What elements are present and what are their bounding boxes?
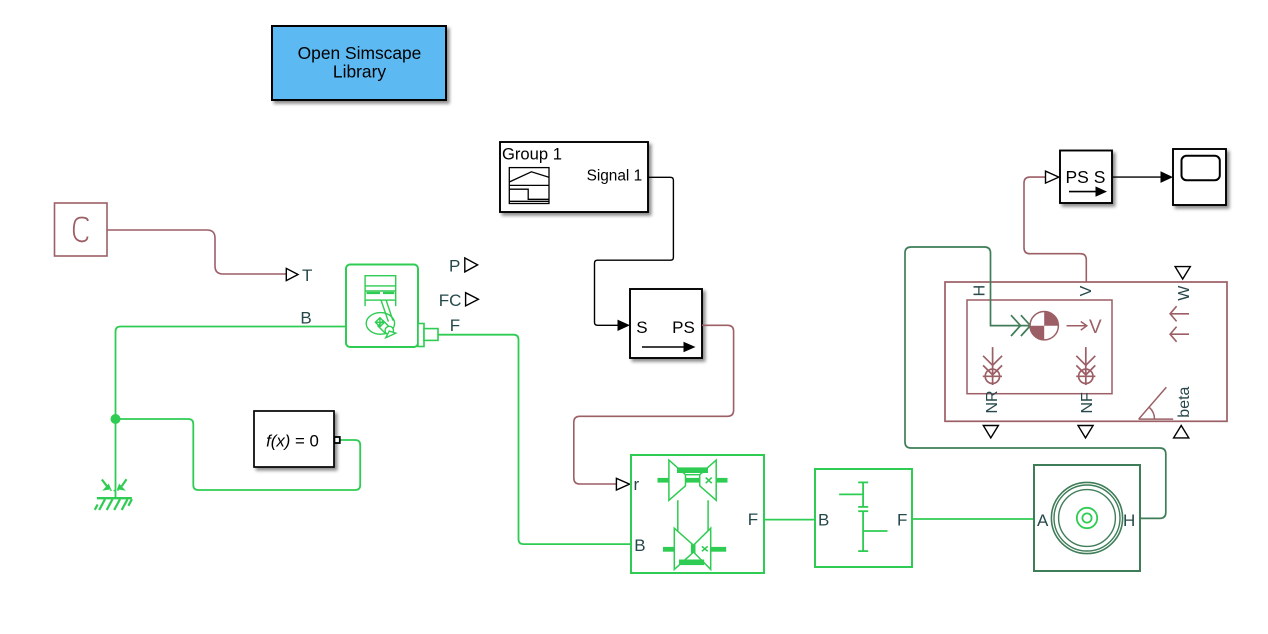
CG symbol — [1030, 312, 1058, 340]
svg-text:F: F — [897, 510, 907, 529]
wire S-PS to valve r port — [574, 325, 734, 484]
port triangle beta bottom — [1174, 426, 1189, 438]
svg-text:f(x) = 0: f(x) = 0 — [266, 431, 319, 450]
svg-text:F: F — [748, 510, 758, 529]
svg-text:H: H — [1123, 511, 1135, 530]
block Group 1 signal editor — [500, 142, 648, 212]
block S-PS converter — [630, 289, 702, 358]
svg-text:Open Simscape: Open Simscape — [298, 43, 422, 63]
port triangle W top — [1175, 267, 1190, 279]
svg-text:Signal 1: Signal 1 — [587, 168, 643, 185]
tire block — [1034, 465, 1140, 571]
wire tire H loop to vehicle H port — [905, 247, 1166, 518]
svg-text:beta: beta — [1176, 386, 1193, 417]
svg-text:r: r — [634, 475, 640, 494]
svg-text:P: P — [449, 256, 460, 275]
svg-text:F: F — [450, 316, 460, 335]
port arrow r — [616, 478, 629, 490]
vehicle body inner box — [967, 300, 1112, 394]
vehicle body subsystem box — [945, 282, 1227, 421]
valve top symbol — [658, 460, 728, 500]
valve connector lines — [678, 500, 708, 531]
ground mechanical reference — [95, 479, 132, 510]
svg-text:B: B — [634, 536, 645, 555]
scope block — [1173, 149, 1226, 205]
svg-text:Group 1: Group 1 — [502, 145, 562, 164]
wire Group1 to S-PS converter — [595, 177, 674, 325]
wire gear F to tire A — [912, 518, 1034, 520]
wire B engine to ground node — [116, 327, 347, 499]
svg-text:NF: NF — [1079, 392, 1096, 414]
svg-text:PS: PS — [672, 318, 695, 337]
engine block U1 — [346, 265, 418, 348]
port arrow P — [465, 258, 478, 272]
svg-text:Library: Library — [333, 62, 386, 82]
block f(x)=0 solver — [254, 411, 334, 467]
svg-text:PS S: PS S — [1066, 167, 1106, 187]
svg-text:B: B — [300, 309, 311, 328]
svg-text:FC: FC — [439, 291, 462, 310]
svg-text:NR: NR — [984, 390, 1001, 413]
block C controller — [55, 203, 108, 256]
wire PS-S to scope — [1112, 176, 1161, 178]
signal editor icon — [509, 168, 549, 204]
node junction — [111, 414, 121, 424]
port square f(x) — [334, 437, 339, 443]
port arrow T — [286, 268, 298, 280]
chevrons H connection — [1011, 315, 1030, 336]
wire V port to PS-S converter — [1024, 177, 1086, 282]
port arrow PS-S input — [1046, 171, 1059, 183]
engine flange port F — [418, 324, 438, 347]
arrow into S port — [618, 320, 631, 331]
valve bottom symbol — [663, 528, 726, 569]
gear block — [815, 469, 912, 567]
W wind arrows — [1170, 306, 1189, 342]
port triangle NR bottom — [983, 426, 998, 438]
engine piston icon — [365, 276, 396, 338]
tire force icon NF — [1076, 347, 1095, 385]
block PS-S converter — [1060, 151, 1112, 204]
wire engine F to valve B — [438, 335, 631, 544]
wire branch node to f(x) block — [116, 419, 361, 490]
wire C to T — [107, 230, 286, 274]
valve block (variable displacement) — [631, 455, 764, 573]
svg-text:H: H — [972, 285, 989, 297]
arrow into scope — [1161, 171, 1174, 183]
port triangle NF bottom — [1078, 426, 1093, 438]
svg-text:S: S — [636, 318, 647, 337]
svg-text:W: W — [1176, 285, 1193, 301]
beta angle icon — [1139, 387, 1174, 419]
gear icon — [839, 482, 887, 551]
svg-text:T: T — [302, 266, 312, 285]
port arrow FC — [466, 293, 479, 306]
wire valve F to gear B — [764, 519, 815, 521]
svg-text:V: V — [1089, 317, 1102, 338]
tire force icon NR — [983, 347, 1002, 385]
arrow V inside — [1067, 325, 1087, 327]
svg-text:A: A — [1037, 511, 1049, 530]
tire icon circles — [1051, 482, 1122, 553]
button Open Simscape Library — [272, 26, 446, 100]
svg-text:V: V — [1078, 285, 1095, 296]
svg-text:B: B — [818, 510, 829, 529]
